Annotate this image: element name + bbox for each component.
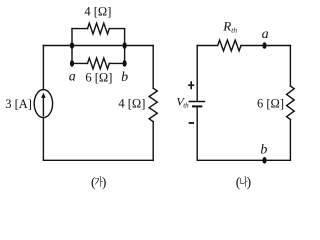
svg-text:(: ( — [91, 175, 96, 190]
svg-text:b: b — [121, 70, 128, 85]
svg-text:3 [A]: 3 [A] — [5, 97, 32, 111]
svg-text:b: b — [260, 143, 267, 158]
svg-text:a: a — [69, 70, 76, 85]
svg-text:th: th — [183, 102, 189, 110]
svg-text:(: ( — [236, 175, 241, 190]
svg-text:): ) — [247, 175, 252, 190]
svg-text:6 [Ω]: 6 [Ω] — [257, 96, 284, 110]
svg-text:R: R — [222, 18, 231, 33]
svg-text:4 [Ω]: 4 [Ω] — [118, 96, 145, 110]
svg-text:6 [Ω]: 6 [Ω] — [85, 70, 112, 84]
svg-text:4 [Ω]: 4 [Ω] — [84, 4, 111, 18]
svg-text:th: th — [231, 25, 237, 34]
svg-text:): ) — [102, 175, 107, 190]
svg-text:a: a — [262, 27, 269, 42]
